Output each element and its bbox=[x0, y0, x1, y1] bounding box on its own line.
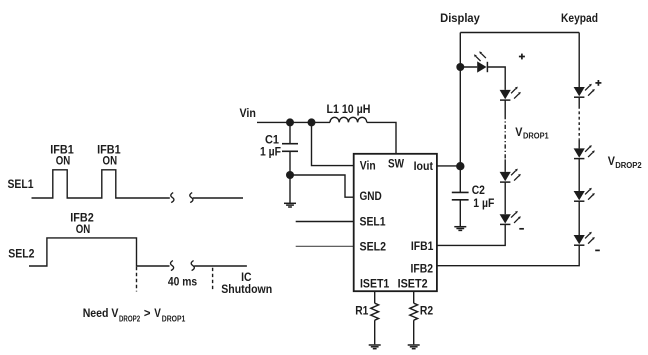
svg-text:L1 10 µH: L1 10 µH bbox=[327, 104, 371, 116]
svg-text:DROP1: DROP1 bbox=[523, 132, 549, 141]
svg-text:Shutdown: Shutdown bbox=[221, 284, 272, 296]
svg-text:Display: Display bbox=[440, 13, 480, 25]
svg-text:DROP2: DROP2 bbox=[615, 161, 642, 170]
svg-text:GND: GND bbox=[360, 191, 382, 203]
svg-text:40 ms: 40 ms bbox=[168, 277, 197, 289]
svg-text:C2: C2 bbox=[472, 185, 485, 197]
svg-text:Keypad: Keypad bbox=[561, 13, 598, 25]
svg-text:V: V bbox=[515, 127, 523, 139]
svg-text:ON: ON bbox=[76, 224, 91, 236]
svg-text:SW: SW bbox=[388, 159, 404, 171]
svg-text:1 µF: 1 µF bbox=[473, 198, 494, 210]
svg-text:R1: R1 bbox=[355, 306, 369, 318]
svg-text:ISET2: ISET2 bbox=[398, 279, 428, 291]
svg-text:IFB2: IFB2 bbox=[70, 213, 94, 225]
svg-text:IFB2: IFB2 bbox=[411, 264, 434, 276]
svg-text:SEL2: SEL2 bbox=[360, 242, 387, 254]
svg-text:Iout: Iout bbox=[414, 161, 434, 173]
svg-text:ON: ON bbox=[56, 156, 71, 168]
svg-text:SEL1: SEL1 bbox=[8, 179, 35, 191]
svg-text:C1: C1 bbox=[265, 135, 280, 147]
svg-text:Need V: Need V bbox=[83, 308, 119, 320]
svg-text:V: V bbox=[608, 156, 616, 168]
svg-text:ON: ON bbox=[103, 156, 118, 168]
svg-text:Vin: Vin bbox=[360, 161, 376, 173]
svg-text:IC: IC bbox=[241, 272, 251, 284]
svg-text:Vin: Vin bbox=[240, 108, 256, 120]
svg-text:V: V bbox=[154, 308, 161, 320]
svg-text:SEL2: SEL2 bbox=[8, 249, 34, 261]
svg-text:DROP2: DROP2 bbox=[119, 314, 141, 323]
svg-text:R2: R2 bbox=[420, 306, 433, 318]
svg-text:1 µF: 1 µF bbox=[260, 147, 281, 159]
svg-text:ISET1: ISET1 bbox=[360, 279, 390, 291]
svg-text:SEL1: SEL1 bbox=[360, 216, 387, 228]
svg-text:IFB1: IFB1 bbox=[411, 241, 434, 253]
svg-text:>: > bbox=[144, 308, 151, 320]
svg-text:DROP1: DROP1 bbox=[162, 314, 186, 323]
